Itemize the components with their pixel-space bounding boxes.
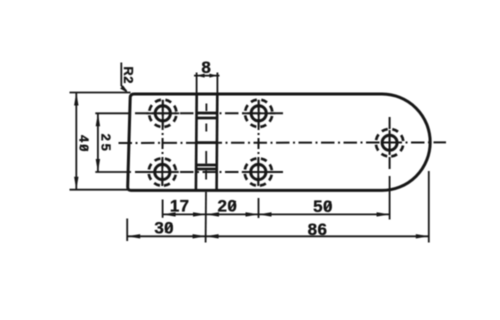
ext line hole col left below bbox=[162, 200, 164, 218]
arrow 30 right bbox=[193, 234, 206, 238]
ext line plate left edge below bbox=[126, 219, 128, 242]
hole cross h 1 bbox=[146, 112, 179, 114]
svg-text:40: 40 bbox=[77, 135, 92, 153]
hole cross v 1 bbox=[162, 100, 164, 127]
left hole column center line bbox=[161, 100, 164, 186]
hole top-right countersink dashed circle bbox=[243, 97, 275, 129]
knuckle joint line 1a bbox=[196, 112, 217, 115]
svg-text:86: 86 bbox=[308, 220, 328, 239]
arrow 50 left bbox=[259, 212, 272, 216]
hole right-end solid circle bbox=[382, 135, 397, 150]
ext line hole col right below bbox=[258, 198, 260, 218]
slash in zero of 20 bbox=[229, 201, 235, 211]
dim 8 line bbox=[194, 75, 220, 77]
arrow 40 up bbox=[74, 93, 78, 106]
main horizontal center line bbox=[119, 141, 447, 144]
svg-text:17: 17 bbox=[170, 197, 190, 216]
top hole row center line bbox=[135, 112, 283, 114]
hole bottom-right solid circle bbox=[251, 164, 266, 179]
knuckle joint line 2a bbox=[196, 164, 217, 167]
pin center dash 2 bbox=[205, 124, 207, 132]
arrow 86 right bbox=[416, 234, 429, 238]
knuckle right line bbox=[215, 94, 218, 190]
arrow 17 left bbox=[163, 212, 176, 216]
ext line end hole below bbox=[389, 176, 391, 220]
hole cross h 3 bbox=[242, 112, 275, 114]
pin center dash 1 bbox=[205, 104, 207, 112]
ext line knuckle center below bbox=[205, 192, 207, 243]
bottom hole row center line bbox=[135, 171, 283, 173]
dim 25 bottom extension line bbox=[95, 171, 131, 173]
hole cross v 3 bbox=[258, 100, 260, 127]
arrow 40 down bbox=[74, 177, 78, 190]
hole top-left solid circle bbox=[155, 106, 170, 121]
slash in zero of 40 (rotated) bbox=[80, 145, 88, 151]
dim 8 right extension bbox=[216, 73, 218, 95]
arrow 30 left bbox=[127, 234, 140, 238]
dim 25 line bbox=[97, 113, 99, 172]
knuckle left line bbox=[195, 94, 198, 190]
center line dash across end hole bbox=[381, 142, 398, 144]
arrow 17 right bbox=[193, 212, 206, 216]
ext line plate right end below bbox=[428, 171, 430, 243]
arrow 25 down bbox=[96, 159, 100, 172]
arrow 20 left bbox=[206, 212, 219, 216]
knuckle joint line 2b bbox=[196, 168, 217, 171]
arrow 8 left bbox=[197, 74, 205, 78]
hole top-right solid circle bbox=[251, 106, 266, 121]
slash in zero of 50 bbox=[325, 201, 331, 211]
center line dash across knuckle bbox=[196, 141, 219, 144]
dim 40 top extension line bbox=[70, 92, 131, 94]
arrow 8 right bbox=[209, 74, 217, 78]
dim row1 line 17-20-50 bbox=[163, 213, 390, 215]
svg-text:25: 25 bbox=[99, 134, 114, 154]
svg-text:50: 50 bbox=[313, 197, 333, 216]
hinge plate outline bbox=[128, 94, 430, 190]
dim 8 left extension bbox=[196, 73, 198, 95]
end hole cross v bbox=[389, 130, 391, 155]
right hole column center line bbox=[257, 100, 259, 186]
hole right-end countersink dashed circle bbox=[374, 127, 406, 159]
arrow 50 right bbox=[377, 212, 390, 216]
arrow 86 left bbox=[206, 234, 219, 238]
pin center dash 4 bbox=[205, 171, 207, 180]
dim 40 line bbox=[75, 93, 77, 190]
arrow 20 right bbox=[246, 212, 259, 216]
hole top-left countersink dashed circle bbox=[147, 97, 179, 129]
dim 40 bottom extension line bbox=[70, 189, 129, 191]
hole cross h 2 bbox=[146, 171, 179, 173]
slash in zero of 30 bbox=[165, 223, 172, 233]
hole cross v 2 bbox=[161, 159, 163, 186]
hole cross h 4 bbox=[242, 171, 275, 173]
end hole vertical center line bbox=[389, 117, 391, 172]
hole bottom-right countersink dashed circle bbox=[242, 156, 274, 188]
dim row2 line 30-86 bbox=[127, 235, 429, 237]
svg-text:8: 8 bbox=[201, 58, 211, 77]
svg-text:20: 20 bbox=[218, 197, 238, 216]
pin center dash 3 bbox=[205, 151, 207, 164]
svg-text:30: 30 bbox=[154, 219, 174, 238]
leader R2 line bbox=[121, 63, 126, 92]
arrow R2 leader bbox=[120, 86, 128, 94]
hole bottom-left solid circle bbox=[155, 164, 170, 179]
svg-text:R2: R2 bbox=[121, 66, 136, 84]
arrow 25 up bbox=[96, 113, 100, 126]
hole bottom-left countersink dashed circle bbox=[146, 156, 178, 188]
dim 25 top extension line bbox=[95, 112, 131, 114]
knuckle joint line 1b bbox=[196, 117, 217, 120]
hole cross v 4 bbox=[257, 159, 259, 186]
